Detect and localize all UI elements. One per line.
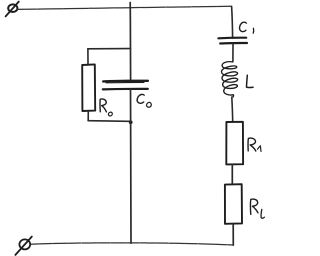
wire RL bottom lead xyxy=(232,224,234,245)
wire middle vertical lower xyxy=(130,90,133,244)
terminal bottom-left xyxy=(15,237,31,255)
wire R0 bottom lead xyxy=(87,111,89,121)
label R0 xyxy=(100,99,112,116)
capacitor C1 xyxy=(218,38,247,44)
label L xyxy=(247,75,254,87)
wire bottom horizontal xyxy=(31,243,233,245)
wire R0 branch bottom horizontal xyxy=(88,120,130,123)
label C0 xyxy=(137,94,151,107)
label R1 xyxy=(248,138,261,151)
inductor L xyxy=(222,62,238,97)
label C1 xyxy=(240,22,254,33)
terminal top-left xyxy=(6,2,19,17)
label RL xyxy=(250,199,264,218)
capacitor C0 xyxy=(103,81,148,90)
wire R1 to RL xyxy=(231,164,233,184)
wire L bottom lead xyxy=(231,97,234,122)
wire branch to R0 top xyxy=(88,48,131,50)
junction node xyxy=(129,120,133,124)
wire middle vertical upper xyxy=(129,3,131,81)
wire top horizontal xyxy=(17,6,231,9)
wire top-right corner down to C1 xyxy=(232,6,233,38)
resistor R1 xyxy=(226,122,243,165)
resistor R0 xyxy=(82,64,95,111)
resistor RL xyxy=(225,184,242,224)
wire R0 top lead xyxy=(87,49,89,65)
wire C1 to L xyxy=(232,44,234,62)
